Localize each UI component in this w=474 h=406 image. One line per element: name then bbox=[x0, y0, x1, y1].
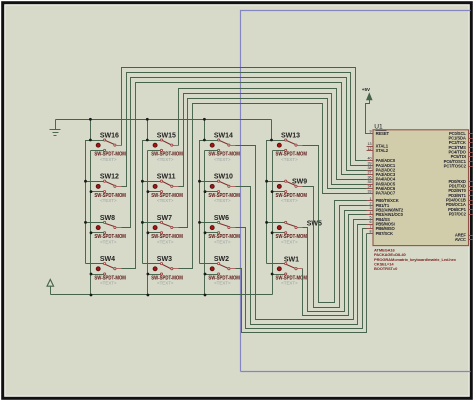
svg-text:33: 33 bbox=[368, 189, 372, 193]
svg-text:2: 2 bbox=[370, 202, 372, 206]
junction: SW5 NC node bbox=[271, 231, 274, 234]
wire SW8 to PA2 bbox=[122, 78, 367, 228]
switch SW16 (SW-SPDT-MOM) bbox=[91, 132, 126, 162]
svg-text:SW11: SW11 bbox=[157, 174, 176, 181]
wire SW12 to PA1 bbox=[122, 73, 367, 187]
svg-text:SW4: SW4 bbox=[100, 256, 115, 263]
switch SW6 (SW-SPDT-MOM) bbox=[200, 215, 240, 245]
pin 39 PA1/ADC1 lead bbox=[367, 165, 373, 167]
junction: SW12 NC node bbox=[90, 190, 93, 193]
column 3 pivot chain (offset line) bbox=[200, 141, 205, 264]
pin 35 PA5/ADC5 lead bbox=[367, 184, 373, 186]
svg-text:<TEXT>: <TEXT> bbox=[157, 239, 174, 244]
svg-text:SW10: SW10 bbox=[214, 174, 233, 181]
wire SW4 to PA3 bbox=[122, 83, 367, 269]
svg-text:7: 7 bbox=[370, 225, 372, 229]
pin 9 RESET lead bbox=[367, 133, 373, 135]
switch SW10 (SW-SPDT-MOM) bbox=[200, 174, 240, 204]
svg-text:<TEXT>: <TEXT> bbox=[157, 198, 174, 203]
svg-text:U1: U1 bbox=[374, 123, 383, 130]
svg-text:SW5: SW5 bbox=[307, 221, 322, 228]
bottom ground rail bbox=[51, 294, 273, 296]
junction: SW11 pivot node bbox=[141, 180, 144, 183]
pin 2 PB1/T1 lead bbox=[367, 205, 373, 207]
column 3 feed from top rail bbox=[204, 120, 206, 141]
top ground rail bbox=[56, 119, 272, 121]
junction: SW4 NC node bbox=[90, 273, 93, 276]
svg-text:<TEXT>: <TEXT> bbox=[281, 157, 298, 162]
svg-text:<TEXT>: <TEXT> bbox=[281, 198, 298, 203]
svg-text:SW16: SW16 bbox=[100, 132, 119, 139]
column 2 feed from top rail bbox=[147, 120, 149, 141]
switch SW8 (SW-SPDT-MOM) bbox=[86, 215, 126, 245]
wire SW3 to PA7 bbox=[179, 104, 367, 269]
svg-text:36: 36 bbox=[368, 175, 372, 179]
pin 6 PB5/MOSI lead bbox=[367, 224, 373, 226]
column 2 NC chain down to bottom rail bbox=[147, 151, 149, 295]
junction: top rail / col2 bbox=[146, 118, 149, 121]
column 3 NC chain down to bottom rail bbox=[204, 151, 206, 295]
wire SW1 to PB3 bbox=[303, 215, 367, 316]
svg-text:SW3: SW3 bbox=[157, 256, 172, 263]
svg-text:5: 5 bbox=[370, 215, 372, 219]
svg-text:SW15: SW15 bbox=[157, 132, 176, 139]
svg-text:XTAL2: XTAL2 bbox=[376, 148, 389, 153]
switch SW1 (SW-SPDT-MOM) bbox=[267, 256, 308, 285]
junction: bottom rail / col3 bbox=[204, 294, 207, 297]
pin 8 PB7/SCK lead bbox=[367, 233, 373, 235]
svg-text:RESET: RESET bbox=[376, 131, 390, 136]
pin 7 PB6/MISO lead bbox=[367, 228, 373, 230]
column 4 pivot chain (offset line) bbox=[267, 141, 272, 264]
junction: SW10 NC node bbox=[204, 190, 207, 193]
svg-text:SW8: SW8 bbox=[100, 215, 115, 222]
svg-text:39: 39 bbox=[368, 161, 372, 165]
svg-text:<TEXT>: <TEXT> bbox=[281, 281, 298, 286]
pin 1 PB0/T0/XCK lead bbox=[367, 200, 373, 202]
wire SW15 to PA4 bbox=[179, 89, 367, 180]
svg-text:13: 13 bbox=[368, 142, 372, 146]
svg-text:<TEXT>: <TEXT> bbox=[100, 239, 117, 244]
svg-text:SW13: SW13 bbox=[281, 132, 300, 139]
junction: SW16 pivot node bbox=[89, 139, 92, 142]
junction: SW5 pivot node bbox=[265, 221, 268, 224]
pin 36 PA4/ADC4 lead bbox=[367, 179, 373, 181]
svg-text:<TEXT>: <TEXT> bbox=[100, 281, 117, 286]
switch SW13 (SW-SPDT-MOM) bbox=[272, 132, 308, 162]
pin 40 PA0/ADC0 lead bbox=[367, 160, 373, 162]
svg-text:3: 3 bbox=[370, 206, 372, 210]
switch SW5 (SW-SPDT-MOM) bbox=[267, 221, 322, 245]
switch SW11 (SW-SPDT-MOM) bbox=[143, 174, 183, 204]
junction: SW13 pivot node bbox=[270, 139, 273, 142]
svg-text:SW7: SW7 bbox=[157, 215, 172, 222]
pin 4 PB3/AIN1/OC0 lead bbox=[367, 214, 373, 216]
svg-text:PB7/SCK: PB7/SCK bbox=[376, 231, 393, 236]
switch SW7 (SW-SPDT-MOM) bbox=[143, 215, 183, 245]
junction: top rail / col1 bbox=[89, 118, 92, 121]
junction: SW11 NC node bbox=[147, 190, 150, 193]
switch SW9 (SW-SPDT-MOM) bbox=[267, 179, 308, 203]
svg-text:<TEXT>: <TEXT> bbox=[100, 157, 117, 162]
wire SW7 to PA6 bbox=[179, 99, 367, 228]
svg-text:PD7/OC2: PD7/OC2 bbox=[449, 212, 467, 217]
wire SW10 to PB5 bbox=[236, 187, 367, 325]
svg-text:SW2: SW2 bbox=[214, 256, 229, 263]
pin 38 PA2/ADC2 lead bbox=[367, 170, 373, 172]
wire SW16 to PA0 bbox=[122, 68, 367, 161]
wire SW14 to PB4 bbox=[236, 146, 367, 320]
svg-text:AVCC: AVCC bbox=[455, 237, 466, 242]
svg-text:SW1: SW1 bbox=[284, 256, 299, 263]
svg-text:PC7/TOSC2: PC7/TOSC2 bbox=[444, 164, 467, 169]
junction: SW8 pivot node bbox=[84, 221, 87, 224]
column 4 NC chain down to bottom rail bbox=[272, 151, 274, 295]
svg-text:<TEXT>: <TEXT> bbox=[214, 198, 231, 203]
svg-text:SW6: SW6 bbox=[214, 215, 229, 222]
junction: SW2 NC node bbox=[204, 273, 207, 276]
junction: SW3 NC node bbox=[147, 273, 150, 276]
svg-text:<TEXT>: <TEXT> bbox=[214, 239, 231, 244]
pin 34 PA6/ADC6 lead bbox=[367, 188, 373, 190]
svg-text:12: 12 bbox=[368, 147, 372, 151]
junction: SW9 pivot node bbox=[265, 180, 268, 183]
svg-text:9: 9 bbox=[370, 130, 372, 134]
svg-text:+5V: +5V bbox=[362, 87, 371, 92]
pin 13 XTAL1 lead bbox=[367, 146, 373, 148]
junction: SW15 pivot node bbox=[146, 139, 149, 142]
wire SW9 to PB1 bbox=[303, 187, 367, 308]
junction: bottom rail / col1 bbox=[90, 294, 93, 297]
junction: top rail / col3 bbox=[203, 118, 206, 121]
junction: SW7 pivot node bbox=[141, 221, 144, 224]
column 4 feed from top rail bbox=[271, 120, 273, 141]
switch SW3 (SW-SPDT-MOM) bbox=[143, 256, 183, 286]
switch SW14 (SW-SPDT-MOM) bbox=[205, 132, 240, 162]
junction: SW12 pivot node bbox=[84, 180, 87, 183]
wire SW13 to PB0 bbox=[303, 146, 367, 303]
switch SW15 (SW-SPDT-MOM) bbox=[148, 132, 183, 162]
junction: SW10 pivot node bbox=[198, 180, 201, 183]
svg-text:<TEXT>: <TEXT> bbox=[214, 281, 231, 286]
svg-text:<TEXT>: <TEXT> bbox=[214, 157, 231, 162]
svg-text:37: 37 bbox=[368, 171, 372, 175]
junction: SW1 NC node bbox=[271, 273, 274, 276]
pin 5 PB4/SS lead bbox=[367, 219, 373, 221]
ground symbol (top-left) bbox=[55, 120, 57, 130]
junction: bottom rail / col2 bbox=[147, 294, 150, 297]
switch SW4 (SW-SPDT-MOM) bbox=[86, 256, 126, 286]
wire SW5 to PB2 bbox=[303, 211, 367, 312]
column 1 NC chain down to bottom rail bbox=[90, 151, 92, 295]
wire SW6 to PB6 bbox=[236, 228, 367, 329]
svg-text:SW12: SW12 bbox=[100, 174, 119, 181]
junction: SW6 pivot node bbox=[198, 221, 201, 224]
svg-text:40: 40 bbox=[368, 157, 372, 161]
switch SW12 (SW-SPDT-MOM) bbox=[86, 174, 126, 204]
svg-text:<TEXT>: <TEXT> bbox=[157, 157, 174, 162]
column 2 pivot chain (offset line) bbox=[143, 141, 148, 264]
pin 3 PB2/AIN0/INT2 lead bbox=[367, 210, 373, 212]
junction: SW7 NC node bbox=[147, 231, 150, 234]
blue sub-sheet boundary bbox=[241, 11, 471, 372]
svg-text:SW9: SW9 bbox=[292, 179, 307, 186]
svg-text:34: 34 bbox=[368, 185, 372, 189]
wire SW2 to PB7 bbox=[236, 234, 367, 333]
column 1 feed from top rail bbox=[90, 120, 92, 141]
junction: SW6 NC node bbox=[204, 231, 207, 234]
svg-text:<TEXT>: <TEXT> bbox=[157, 281, 174, 286]
pin 12 XTAL2 lead bbox=[367, 150, 373, 152]
column 1 pivot chain (offset line) bbox=[86, 141, 91, 264]
svg-text:BOOTRST=0: BOOTRST=0 bbox=[374, 266, 398, 271]
pin 33 PA7/ADC7 lead bbox=[367, 193, 373, 195]
ground terminal triangle (bottom-left) bbox=[47, 279, 54, 286]
junction: SW14 pivot node bbox=[203, 139, 206, 142]
svg-text:4: 4 bbox=[370, 211, 372, 215]
switch SW2 (SW-SPDT-MOM) bbox=[200, 256, 240, 286]
svg-text:<TEXT>: <TEXT> bbox=[100, 198, 117, 203]
svg-text:8: 8 bbox=[370, 229, 372, 233]
svg-text:1: 1 bbox=[370, 197, 372, 201]
svg-text:35: 35 bbox=[368, 180, 372, 184]
svg-text:PA7/ADC7: PA7/ADC7 bbox=[376, 191, 396, 196]
svg-text:<TEXT>: <TEXT> bbox=[281, 239, 298, 244]
wire SW11 to PA5 bbox=[179, 94, 367, 187]
svg-text:6: 6 bbox=[370, 220, 372, 224]
svg-text:38: 38 bbox=[368, 166, 372, 170]
wire +5V to RESET pin bbox=[366, 100, 373, 134]
svg-text:SW14: SW14 bbox=[214, 132, 233, 139]
junction: SW9 NC node bbox=[271, 190, 274, 193]
pin 37 PA3/ADC3 lead bbox=[367, 174, 373, 176]
microcontroller U1 ATMEGA16 body bbox=[373, 130, 469, 246]
junction: SW8 NC node bbox=[90, 231, 93, 234]
